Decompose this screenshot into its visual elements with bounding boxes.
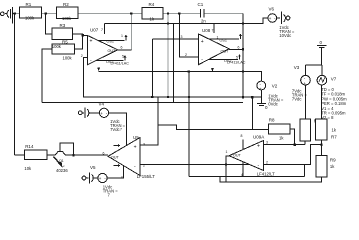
svg-text:U5: U5: [133, 135, 139, 140]
svg-text:C1: C1: [198, 2, 204, 7]
wire V- rail left to U07 pin4: [99, 71, 189, 73]
svg-text:1: 1: [121, 34, 123, 38]
svg-text:U09A: U09A: [253, 135, 264, 140]
wire gray vertical x131 U07 out to bus: [130, 14, 132, 51]
op-amp U08: [181, 28, 246, 65]
wire U08 minus input: [179, 14, 198, 58]
svg-text:V6: V6: [269, 7, 275, 12]
svg-text:1: 1: [226, 150, 228, 154]
wire to U5 out: [66, 154, 109, 156]
svg-text:4: 4: [241, 173, 243, 177]
svg-text:R9: R9: [330, 158, 336, 163]
svg-text:U08: U08: [202, 28, 211, 33]
wire V2 bottom to gnd: [260, 90, 262, 103]
svg-text:R3: R3: [60, 23, 66, 28]
resistor R2: [57, 2, 78, 21]
U08 pin 4 arrow: [211, 68, 214, 72]
svg-text:R8: R8: [269, 118, 275, 123]
ground 0 below V2: [257, 103, 268, 110]
svg-text:LF412/LT: LF412/LT: [257, 172, 275, 177]
svg-text:2: 2: [266, 161, 268, 165]
wire top gray bus y13: [13, 14, 244, 98]
wire x243 to V2 top: [189, 72, 261, 177]
wire V3 down to R5R: [304, 85, 306, 119]
op-amp U5 (mirrored, points left): [103, 128, 156, 180]
svg-text:R2: R2: [63, 2, 69, 7]
wire U07 pin7 stub: [104, 24, 106, 34]
svg-text:7: 7: [212, 29, 214, 33]
wire R14 row: [15, 154, 25, 156]
op-amp U07: [81, 28, 129, 66]
wire gnd top right stem: [321, 48, 323, 65]
svg-text:V7: V7: [331, 77, 337, 82]
wire V7 down to R7: [321, 85, 323, 119]
pulse source V7: [317, 75, 347, 120]
svg-text:TRAN =: TRAN =: [103, 189, 119, 194]
svg-text:LF411/LAC: LF411/LAC: [111, 62, 130, 66]
voltage source V6: [268, 7, 295, 38]
capacitor C1: [198, 2, 207, 24]
wire V4 to U5 pin7: [109, 113, 127, 146]
svg-text:+: +: [100, 111, 103, 116]
wire U09A out down: [226, 156, 229, 182]
svg-text:R5: R5: [62, 40, 68, 45]
resistor R9: [316, 156, 336, 178]
svg-text:7: 7: [101, 28, 103, 32]
resistor R1: [20, 2, 42, 21]
ground 0 top right: [317, 40, 327, 48]
wire V7 top: [321, 65, 323, 75]
wire input node vertical to R14: [14, 14, 16, 156]
svg-text:100k: 100k: [63, 56, 73, 61]
svg-text:+: +: [303, 81, 306, 86]
svg-text:2n: 2n: [201, 19, 206, 24]
wire R8 right to +bus: [290, 129, 295, 145]
wire x168 vertical: [167, 14, 169, 98]
wire long minus bus y164.6: [140, 145, 321, 165]
wire U09A plus bus y144.7: [264, 144, 306, 146]
svg-text:+: +: [99, 176, 102, 181]
resistor R6: [300, 119, 322, 142]
svg-text:LF155/LT: LF155/LT: [137, 174, 155, 179]
svg-text:8: 8: [241, 134, 243, 138]
resistor R7: [315, 119, 337, 140]
svg-text:2: 2: [185, 53, 187, 57]
svg-text:R1: R1: [26, 2, 32, 7]
wire big vertical x243 C1 node down to bus: [242, 14, 244, 98]
voltage source V5: [82, 165, 118, 198]
svg-text:+: +: [269, 16, 272, 21]
resistor R5: [52, 40, 75, 61]
resistor R8: [269, 118, 291, 141]
wire U09A pin4 stub: [242, 162, 244, 177]
svg-text:OUT: OUT: [108, 49, 117, 53]
svg-text:V2: V2: [272, 84, 278, 89]
wire U08 pin7 stub: [213, 24, 215, 33]
svg-text:+: +: [259, 86, 262, 91]
svg-text:OUT: OUT: [221, 50, 230, 54]
wire V5 to U5 pin4: [107, 166, 124, 179]
U07 pin 4 arrow: [97, 68, 100, 72]
transistor Q1 40236: [54, 152, 69, 173]
wire U09A pin8 stub: [242, 139, 244, 150]
svg-text:2: 2: [81, 54, 83, 58]
wire line B R9 bottom: [220, 177, 322, 182]
svg-text:+: +: [90, 39, 93, 45]
svg-text:6: 6: [103, 152, 105, 156]
wire R5R bottom stub: [304, 141, 306, 145]
wire y23.6 V+ bus: [105, 18, 268, 24]
svg-text:V4: V4: [99, 102, 105, 107]
svg-text:6: 6: [238, 46, 240, 50]
wire U5 plus input up to bus: [140, 97, 158, 145]
wire V6 left: [277, 17, 281, 19]
svg-text:40236: 40236: [56, 168, 68, 173]
svg-text:100k: 100k: [52, 44, 62, 49]
svg-text:OUT: OUT: [233, 154, 242, 158]
resistor R14: [24, 144, 47, 171]
wire R7 bottom stub: [320, 140, 322, 156]
wire lower bus y102.4: [42, 101, 243, 103]
svg-text:R7: R7: [331, 135, 337, 140]
svg-text:10k: 10k: [24, 166, 32, 171]
wire upper bus y97 U07 feedback: [84, 58, 262, 98]
svg-text:Q1: Q1: [59, 159, 64, 163]
op-amp U09A (mirrored, points left): [226, 134, 276, 177]
voltage source V4: [78, 102, 125, 133]
resistor R3: [52, 23, 73, 40]
svg-text:4: 4: [121, 176, 123, 180]
wire U08 out to x243: [229, 48, 243, 50]
svg-text:OUT: OUT: [111, 155, 120, 159]
svg-text:6: 6: [121, 46, 123, 50]
wire R1/R2 junction down to R3: [46, 14, 52, 35]
wire R5 left down to lower bus: [42, 49, 52, 102]
svg-text:R14: R14: [25, 144, 34, 149]
wire line A: [189, 176, 305, 178]
svg-text:U07: U07: [90, 28, 99, 33]
svg-text:100k: 100k: [25, 16, 35, 21]
wire V3 branch: [306, 64, 322, 66]
voltage source V3: [292, 65, 310, 101]
svg-text:R4: R4: [149, 2, 155, 7]
svg-text:LF411/LAC: LF411/LAC: [227, 61, 246, 65]
svg-text:1: 1: [217, 36, 219, 40]
svg-text:0Vdc: 0Vdc: [268, 102, 278, 107]
svg-text:2: 2: [143, 163, 145, 167]
svg-text:V5: V5: [90, 165, 96, 170]
svg-text:V3: V3: [294, 65, 300, 70]
svg-text:10Vdc: 10Vdc: [279, 33, 291, 38]
svg-text:7: 7: [120, 128, 122, 132]
wire transistor loop: [60, 143, 73, 155]
wire U07 out: [118, 49, 132, 51]
svg-text:3: 3: [143, 143, 145, 147]
svg-text:7Vdc: 7Vdc: [292, 96, 302, 101]
wire R3 right to U07 plus: [73, 34, 83, 49]
wire x173.5 vertical: [173, 24, 175, 103]
svg-text:3: 3: [181, 35, 183, 39]
svg-text:+: +: [201, 39, 204, 45]
svg-text:3: 3: [266, 141, 268, 145]
wire x152.3 vertical to upper bus: [151, 39, 153, 97]
svg-text:100k: 100k: [62, 16, 72, 21]
svg-text:+: +: [257, 144, 260, 150]
svg-text:+: +: [134, 144, 137, 150]
input source symbol left edge: [1, 7, 15, 24]
wire upper bus to R8: [252, 97, 268, 129]
svg-text:5: 5: [122, 55, 124, 59]
wire R8 feed jog to U5 riser: [158, 125, 252, 129]
svg-text:7Vdc: 7Vdc: [110, 127, 120, 132]
voltage source V2: [257, 81, 284, 106]
svg-text:5: 5: [236, 56, 238, 60]
resistor R4: [142, 2, 163, 22]
wire U08 plus input feed: [152, 38, 198, 40]
